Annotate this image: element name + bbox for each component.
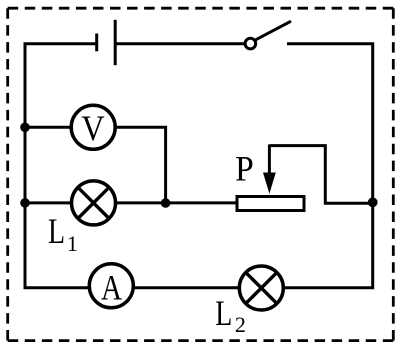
switch	[245, 21, 291, 49]
svg-text:1: 1	[67, 231, 78, 256]
svg-text:P: P	[235, 148, 254, 188]
svg-text:V: V	[81, 109, 105, 148]
rheostat P	[237, 145, 304, 211]
node (left, voltmeter tap)	[20, 123, 30, 133]
node (middle, voltmeter right / L1 right)	[161, 198, 171, 208]
svg-text:2: 2	[235, 312, 246, 337]
node (left, L1 tap)	[20, 198, 30, 208]
wire main loop (left, bottom, right, top segments)	[25, 44, 373, 288]
long plate	[114, 20, 117, 65]
wiper arrow	[268, 145, 271, 177]
wire L1 branch to rheostat	[25, 201, 245, 204]
svg-text:A: A	[101, 269, 122, 309]
lamp L2	[239, 266, 283, 310]
wire battery to switch	[115, 42, 247, 45]
svg-text:L: L	[215, 293, 232, 333]
battery	[97, 20, 116, 65]
wire rheostat wiper to right node	[269, 146, 372, 204]
voltmeter V	[71, 105, 115, 149]
node (right, wiper junction)	[368, 197, 378, 207]
svg-text:L: L	[48, 211, 65, 251]
ammeter A	[89, 264, 133, 309]
wire voltmeter branch	[25, 127, 166, 203]
short plate	[95, 34, 98, 52]
lamp L1	[72, 181, 116, 225]
